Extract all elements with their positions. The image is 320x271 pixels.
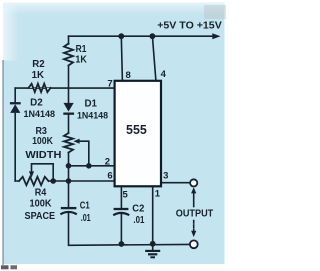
junction dot column/pin6	[66, 178, 72, 184]
ground	[145, 244, 160, 257]
svg-text:SPACE: SPACE	[25, 211, 56, 222]
wire: C2 to bottom rail	[120, 214, 122, 244]
junction dot rail pin4	[150, 33, 156, 39]
svg-text:100K: 100K	[32, 136, 53, 147]
wire: left column top (R2 to D2)	[14, 88, 16, 102]
svg-text:100K: 100K	[30, 199, 53, 210]
svg-text:5: 5	[123, 190, 129, 201]
wire: pin 3 to output	[161, 182, 190, 184]
svg-text:1: 1	[155, 189, 161, 200]
svg-text:C1: C1	[80, 200, 90, 211]
svg-text:555: 555	[126, 123, 147, 137]
resistor R3 (pot body)	[64, 133, 73, 153]
wire: +V top rail	[69, 35, 214, 37]
resistor R1	[64, 44, 73, 66]
svg-text:D2: D2	[30, 97, 43, 108]
output terminal bottom	[190, 240, 198, 248]
wire: R1 top lead from rail corner	[68, 36, 70, 44]
wire: pin 2 horizontal	[69, 165, 115, 167]
wire: D1 to R3	[68, 114, 70, 133]
scan artifact left-edge line	[2, 60, 4, 265]
svg-text:R1: R1	[76, 44, 87, 55]
svg-text:4: 4	[161, 69, 167, 80]
wire: pin 1 to ground node	[152, 186, 154, 244]
svg-text:+5V TO +15V: +5V TO +15V	[157, 19, 222, 31]
wire: pin 5 to C2	[120, 186, 122, 208]
wire: left column (D2 to R4)	[14, 114, 16, 182]
arrowhead +V rail	[212, 33, 220, 39]
wire: pin 7 horizontal (R2 node to 555)	[15, 87, 114, 89]
wire: C1 to bottom rail corner	[69, 214, 190, 246]
svg-text:2: 2	[105, 157, 110, 168]
wire: R4 wiper bracket	[32, 164, 54, 181]
wire: R4 left lead corner	[15, 180, 19, 181]
junction dot bottom rail C2	[119, 241, 125, 247]
junction dot R3 wiper/pin2	[86, 163, 92, 169]
svg-text:R4: R4	[35, 187, 47, 198]
svg-text:R2: R2	[32, 59, 45, 70]
capacitor C2	[113, 209, 129, 215]
wire: R3 bottom down through pin2/pin6 nodes to C1	[68, 153, 70, 209]
svg-text:C2: C2	[132, 204, 144, 215]
svg-text:1K: 1K	[75, 55, 87, 66]
svg-text:1N4148: 1N4148	[24, 108, 56, 119]
wire: output link lower dashed segment	[193, 221, 195, 232]
output arrow up	[191, 187, 196, 193]
svg-text:8: 8	[126, 70, 131, 81]
junction dot R4 bracket/pin6	[50, 178, 56, 184]
diode D1	[64, 103, 74, 112]
svg-text:WIDTH: WIDTH	[25, 150, 61, 161]
R3 wiper arrowhead	[73, 139, 79, 144]
resistor R4 (pot body)	[19, 177, 49, 185]
svg-text:1N4148: 1N4148	[77, 110, 108, 121]
resistor R2	[29, 84, 51, 92]
svg-text:3: 3	[163, 171, 168, 182]
junction dot rail pin8	[118, 33, 124, 39]
wire: R1 bottom to D1	[68, 66, 70, 103]
output terminal top	[190, 179, 197, 186]
capacitor C1	[60, 208, 76, 214]
svg-text:D1: D1	[84, 99, 97, 110]
svg-text:.01: .01	[133, 215, 144, 226]
diode D2	[10, 104, 20, 113]
junction dot bottom rail gnd	[150, 241, 156, 247]
svg-text:OUTPUT: OUTPUT	[176, 208, 214, 219]
svg-text:6: 6	[107, 171, 112, 182]
R4 wiper arrowhead	[29, 171, 34, 177]
wire: R3 wiper to pin2 line	[78, 141, 89, 166]
svg-text:.01: .01	[81, 213, 91, 224]
caption fragment bottom-left	[1, 265, 9, 269]
output arrow down	[191, 231, 196, 237]
junction dot column/pin2	[66, 163, 72, 169]
wire: output link upper segment	[193, 191, 195, 207]
wire: pin 8 from rail	[121, 36, 122, 81]
svg-text:1K: 1K	[32, 70, 45, 81]
IC 555	[115, 81, 161, 187]
wire: pin 6 horizontal (R4 to 555)	[49, 180, 115, 182]
scan artifact top-right	[204, 5, 226, 19]
wire: pin 4 from rail	[152, 36, 156, 81]
svg-text:7: 7	[107, 79, 112, 90]
